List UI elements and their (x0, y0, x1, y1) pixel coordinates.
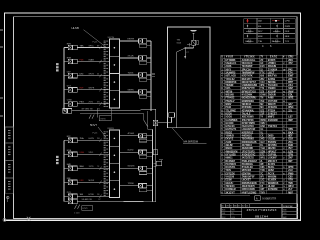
svg-text:WUL: WUL (260, 158, 266, 160)
svg-text:EV0: EV0 (260, 66, 265, 68)
svg-text:GS8: GS8 (260, 126, 265, 128)
svg-text:Z3F: Z3F (260, 113, 265, 115)
svg-text:M7A: M7A (67, 149, 72, 152)
svg-text:3PE: 3PE (260, 85, 265, 87)
svg-text:1:100: 1:100 (74, 213, 80, 215)
svg-text:T4N: T4N (260, 169, 265, 172)
svg-text:72: 72 (98, 108, 100, 110)
svg-text:SCY3V: SCY3V (108, 37, 115, 39)
svg-text:TSK: TSK (80, 45, 85, 47)
svg-text:CSW: CSW (67, 100, 72, 102)
svg-text:NEE: NEE (285, 36, 290, 38)
svg-text:K86: K86 (260, 167, 265, 169)
svg-text:6ST: 6ST (288, 160, 293, 163)
svg-text:VSYD: VSYD (100, 118, 106, 120)
svg-text:W7E: W7E (288, 97, 294, 100)
svg-text:9-X9BF37TR: 9-X9BF37TR (262, 198, 276, 201)
svg-text:UNG: UNG (80, 152, 85, 154)
svg-text:0SP: 0SP (288, 119, 293, 122)
svg-text:5ZV: 5ZV (67, 72, 71, 74)
svg-text:4TV: 4TV (288, 62, 293, 65)
svg-text:1HV: 1HV (260, 142, 265, 144)
svg-text:A: A (256, 196, 258, 200)
svg-text:MAY: MAY (67, 163, 72, 166)
svg-text:5NV7: 5NV7 (90, 123, 97, 127)
svg-text:FTX: FTX (260, 72, 265, 74)
svg-text:7Y: 7Y (260, 57, 263, 59)
svg-text:M4:98R3DM: M4:98R3DM (184, 140, 199, 144)
svg-text:37LUK: 37LUK (128, 55, 135, 57)
svg-text:1G: 1G (260, 129, 263, 131)
svg-text:TPP6K: TPP6K (128, 183, 135, 185)
svg-text:MU5R: MU5R (89, 180, 95, 182)
svg-text:00: 00 (97, 74, 99, 76)
svg-text:ZR: ZR (260, 60, 263, 62)
svg-text:GD3ZG: GD3ZG (128, 166, 135, 168)
svg-text:RK8T8: RK8T8 (108, 128, 115, 130)
svg-text:CX: CX (260, 136, 264, 138)
svg-text:YHA: YHA (260, 147, 265, 150)
svg-text:6VAM: 6VAM (89, 58, 95, 61)
svg-text:E26: E26 (222, 210, 225, 212)
svg-text:WY: WY (260, 177, 264, 179)
svg-text:9BH: 9BH (80, 166, 85, 168)
svg-text:HBV: HBV (67, 43, 72, 45)
svg-text:8B1ZH4: 8B1ZH4 (255, 214, 268, 218)
svg-text:2B2: 2B2 (260, 79, 265, 81)
svg-text:MX: MX (260, 107, 264, 109)
svg-text:98: 98 (230, 206, 232, 208)
svg-text:22L: 22L (288, 109, 293, 112)
svg-text:SS AED SE: SS AED SE (82, 198, 93, 201)
svg-text:7UA: 7UA (80, 137, 85, 140)
svg-text:RSB: RSB (67, 57, 72, 59)
svg-text:GF2G: GF2G (89, 74, 95, 76)
svg-text:MZ: MZ (260, 104, 264, 106)
svg-text:0WW: 0WW (260, 120, 266, 122)
svg-text:FY0: FY0 (260, 183, 265, 185)
svg-text:3V9: 3V9 (260, 101, 265, 103)
svg-text:HVZH: HVZH (89, 138, 95, 140)
svg-text:HV6TLGDW2: HV6TLGDW2 (242, 191, 257, 194)
svg-text:1XTD: 1XTD (89, 166, 95, 168)
svg-text:0547D: 0547D (128, 150, 134, 152)
svg-text:TN: TN (260, 98, 263, 100)
svg-text:GAW: GAW (260, 94, 266, 97)
svg-text:4PGG5: 4PGG5 (128, 133, 136, 135)
svg-text:HLM5: HLM5 (72, 26, 80, 30)
svg-text:DW: DW (226, 206, 229, 208)
svg-text:Z87LKYYM3XZ9X: Z87LKYYM3XZ9X (247, 208, 277, 212)
svg-text:DD8: DD8 (285, 31, 290, 33)
svg-text:MDF: MDF (258, 36, 263, 38)
svg-text:1C3DP1W: 1C3DP1W (283, 206, 293, 208)
svg-text:X8T: X8T (260, 189, 265, 191)
svg-text:W5: W5 (97, 138, 100, 140)
svg-text:ETV9: ETV9 (83, 208, 89, 210)
svg-text:HTSE: HTSE (89, 194, 95, 196)
svg-text:7C: 7C (260, 173, 263, 175)
svg-text:TCF: TCF (285, 41, 290, 43)
svg-text:G5: G5 (238, 206, 240, 208)
svg-text:T3H: T3H (258, 41, 263, 43)
svg-text:XB8: XB8 (283, 210, 286, 212)
svg-text:SZM: SZM (260, 151, 265, 153)
svg-text:GF5C: GF5C (89, 45, 95, 47)
svg-text:3X7EDM: 3X7EDM (268, 188, 278, 191)
svg-text:M1: M1 (97, 102, 100, 104)
svg-text:Z1L: Z1L (231, 213, 234, 215)
svg-text:TU531: TU531 (128, 72, 135, 74)
svg-text:TMY: TMY (260, 192, 265, 194)
svg-text:SK9FD: SK9FD (128, 89, 135, 91)
svg-text:GDA: GDA (177, 41, 182, 44)
svg-text:FSG: FSG (80, 102, 85, 104)
svg-text:EF2: EF2 (260, 154, 265, 156)
svg-text:12C: 12C (260, 180, 265, 182)
svg-text:3K1GYT: 3K1GYT (225, 191, 235, 194)
svg-text:G31: G31 (222, 213, 225, 215)
svg-text:PWR: PWR (285, 26, 291, 28)
svg-text:34G: 34G (260, 138, 265, 141)
svg-text:0R VEM TM: 0R VEM TM (82, 108, 93, 110)
svg-text:ERYR9: ERYR9 (128, 38, 136, 40)
svg-text:F9E: F9E (67, 178, 71, 180)
svg-text:W1PE: W1PE (89, 88, 95, 90)
svg-text:M97: M97 (288, 191, 293, 194)
svg-text:8M2: 8M2 (283, 217, 287, 219)
svg-text:YSE7X4: YSE7X4 (268, 125, 278, 128)
svg-text:3VAD9W: 3VAD9W (268, 119, 279, 122)
svg-text:V4U: V4U (260, 81, 265, 84)
svg-text:WF: WF (260, 164, 264, 166)
svg-text:P4S: P4S (80, 59, 85, 61)
svg-text:VMU: VMU (260, 123, 265, 125)
svg-text:DDY: DDY (258, 31, 263, 33)
